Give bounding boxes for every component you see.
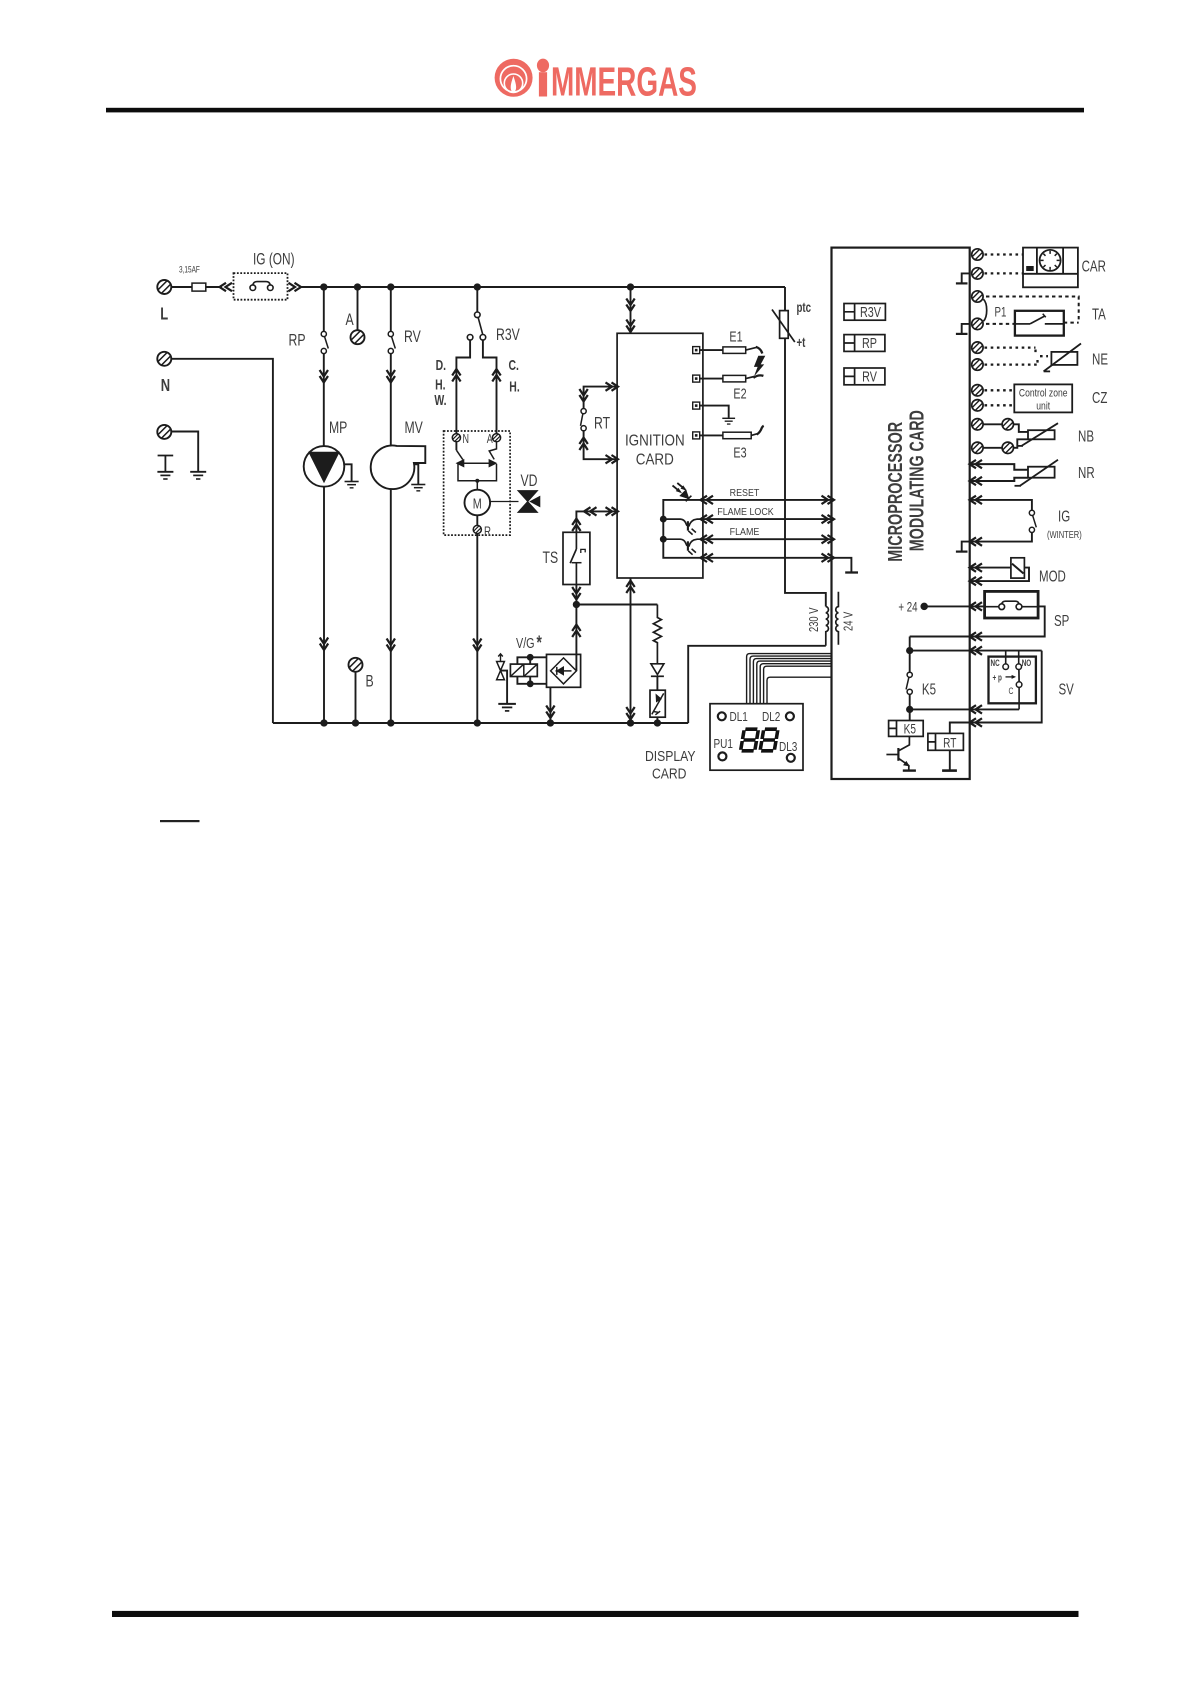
svg-text:CAR: CAR <box>1082 257 1106 275</box>
svg-text:N: N <box>463 433 469 447</box>
resistor R1 <box>653 605 661 664</box>
spark <box>754 356 765 377</box>
led DL1 <box>718 712 726 720</box>
relay R3V <box>844 304 885 321</box>
svg-text:TS: TS <box>543 549 559 567</box>
junction optocoupler/bus <box>655 720 660 725</box>
terminal TA 2 <box>970 317 984 331</box>
svg-text:(WINTER): (WINTER) <box>1047 529 1082 540</box>
svg-text:NB: NB <box>1078 427 1094 445</box>
wire dotted NE <box>985 348 1036 355</box>
control zone unit CZ <box>1014 384 1072 412</box>
wire junction to rectifier <box>575 605 577 671</box>
svg-text:FLAME LOCK: FLAME LOCK <box>717 506 774 518</box>
wire NB bottom <box>983 447 1002 449</box>
svg-text:E3: E3 <box>733 444 746 461</box>
emblem disc <box>495 59 533 97</box>
external probe NE <box>1051 352 1077 365</box>
svg-text:RV: RV <box>404 328 421 346</box>
svg-text:R3V: R3V <box>496 326 520 344</box>
svg-text:E1: E1 <box>729 328 742 345</box>
svg-text:NE: NE <box>1092 350 1108 368</box>
svg-text:RP: RP <box>862 334 877 351</box>
svg-text:MP: MP <box>329 419 347 437</box>
svg-text:P1: P1 <box>995 305 1007 320</box>
wire ptc to transformer <box>785 338 826 606</box>
svg-text:RP: RP <box>289 332 306 350</box>
wire to bus <box>656 717 658 723</box>
wire ribbon bundle <box>747 654 832 704</box>
wire K5 to edge <box>910 708 1019 710</box>
thermostat TA box <box>1015 311 1064 336</box>
solenoid valve SV <box>989 657 1036 704</box>
svg-text:FLAME: FLAME <box>730 527 760 539</box>
wire dotted CAR <box>985 253 1024 255</box>
wire fuse to switch <box>206 286 222 288</box>
wire NB top <box>983 423 1002 425</box>
junction R3V/bus <box>475 720 480 725</box>
signal ground stub <box>832 558 852 572</box>
svg-text:MMERGAS: MMERGAS <box>551 61 697 105</box>
terminal N <box>156 350 176 370</box>
node RV <box>388 284 393 289</box>
wire bus riser to transformer <box>688 646 826 723</box>
svg-text:B: B <box>366 673 374 691</box>
junction ignition card/bus <box>628 720 633 725</box>
svg-text:PU1: PU1 <box>714 738 733 751</box>
wire RP to pump <box>323 354 325 447</box>
svg-text:K5: K5 <box>922 680 936 698</box>
terminal E3 pin <box>693 432 700 439</box>
switch IG (ON) <box>234 273 288 300</box>
wire pump to bus <box>323 487 325 723</box>
svg-text:NR: NR <box>1078 463 1095 481</box>
relay RV <box>844 368 885 385</box>
svg-text:RT: RT <box>594 415 610 433</box>
terminal CAR 2 <box>970 266 984 280</box>
svg-text:N: N <box>161 376 170 396</box>
svg-text:+t: +t <box>797 336 806 351</box>
svg-text:R3V: R3V <box>860 303 881 320</box>
key underline <box>160 820 200 822</box>
svg-text:H.: H. <box>509 379 519 395</box>
svg-text:SP: SP <box>1054 611 1069 629</box>
wire fan to bus <box>390 489 392 723</box>
wire to ground <box>700 406 729 418</box>
phototransistor Q1 <box>663 519 687 526</box>
node K5 top <box>909 637 911 651</box>
svg-text:A: A <box>346 311 354 329</box>
display card U3 <box>710 704 803 771</box>
svg-text:RT: RT <box>943 735 957 751</box>
wire B to bus <box>355 671 357 723</box>
svg-text:TA: TA <box>1092 305 1106 323</box>
wire TS to junction <box>575 585 577 605</box>
transistor Q3 <box>899 736 910 750</box>
terminal CZ 1 <box>970 383 984 397</box>
wire TS line <box>576 511 617 532</box>
relay coil RT <box>950 723 970 734</box>
svg-text:IG: IG <box>1058 507 1070 525</box>
svg-text:DL3: DL3 <box>779 741 797 754</box>
relay contact K5 <box>909 651 911 673</box>
modulating coil MOD <box>970 567 1011 569</box>
node phototransistor 2 <box>661 537 666 542</box>
svg-text:RESET: RESET <box>730 487 760 499</box>
terminal NE 1 <box>970 341 984 355</box>
SV loop <box>950 651 1042 723</box>
terminal E2 pin <box>693 375 700 382</box>
terminal L <box>156 279 176 299</box>
wire dotted CZ <box>985 389 1015 391</box>
svg-text:ptc: ptc <box>797 301 812 316</box>
svg-text:Control zone: Control zone <box>1019 388 1068 400</box>
svg-text:3,15AF: 3,15AF <box>179 264 200 274</box>
wire main bus L <box>300 286 785 288</box>
dhw probe NR <box>1028 467 1055 478</box>
svg-text:IGNITION: IGNITION <box>625 433 685 450</box>
terminal A <box>357 287 359 331</box>
7-segment display <box>741 729 778 751</box>
photo coupler group box <box>663 500 703 558</box>
terminal NE 2 <box>970 358 984 372</box>
wire ignition card to bus <box>630 578 632 723</box>
valve bracket <box>517 657 546 684</box>
svg-text:MV: MV <box>405 419 423 437</box>
wire L to fuse <box>171 286 192 288</box>
wire R to bus <box>476 534 478 723</box>
svg-text:K5: K5 <box>904 721 917 737</box>
pressure switch SP <box>985 591 1039 618</box>
ground <box>498 703 516 705</box>
svg-text:DL1: DL1 <box>730 711 748 724</box>
svg-text:MICROPROCESSOR: MICROPROCESSOR <box>883 421 906 561</box>
boiler probe NB <box>1028 430 1055 439</box>
svg-text:C: C <box>1009 686 1014 696</box>
svg-text:*: * <box>537 632 543 654</box>
svg-text:SV: SV <box>1059 680 1075 698</box>
svg-text:R: R <box>484 524 491 539</box>
motor M <box>465 490 491 516</box>
signal ground stub TA <box>962 324 970 333</box>
svg-text:unit: unit <box>1036 400 1050 412</box>
node RP <box>321 284 326 289</box>
svg-text:CARD: CARD <box>636 452 674 469</box>
ground <box>190 472 206 479</box>
relay RP <box>844 335 885 352</box>
svg-text:24 V: 24 V <box>842 611 856 631</box>
junction MV/bus <box>388 720 393 725</box>
svg-text:CZ: CZ <box>1092 388 1108 406</box>
svg-text:D.: D. <box>436 357 446 373</box>
junction rectifier/bus <box>548 720 553 725</box>
i stem <box>539 72 547 96</box>
i dot <box>537 59 549 73</box>
room thermostat TA dashed outline <box>986 297 1079 324</box>
junction B/bus <box>353 720 358 725</box>
switch IG (WINTER) <box>970 500 1032 510</box>
wire junction to resistor chain <box>576 604 657 606</box>
terminal E1 pin <box>693 347 700 354</box>
fuse 3,15AF <box>192 283 206 291</box>
svg-text:L: L <box>160 304 168 324</box>
wire link P1 <box>983 299 986 321</box>
terminal gnd pin <box>693 402 700 409</box>
svg-text:CARD: CARD <box>652 766 687 782</box>
wire NR bottom <box>970 478 1028 481</box>
svg-text:+ p: + p <box>993 672 1003 682</box>
optocoupler diode box <box>650 690 665 717</box>
chevrons out of switch <box>289 283 302 291</box>
ground <box>157 472 173 479</box>
wire DHW branch <box>456 340 470 434</box>
top rule <box>106 108 1084 113</box>
wire CH branch <box>483 340 497 434</box>
safety valve symbol <box>497 662 505 680</box>
node phototransistor 1 <box>661 517 666 522</box>
LED DL <box>680 490 691 501</box>
node TS junction <box>574 602 579 607</box>
terminal CAR 1 <box>970 248 984 262</box>
terminal NB 1 <box>970 417 984 431</box>
wire valve to ground <box>501 671 508 704</box>
svg-text:DL2: DL2 <box>762 711 780 724</box>
svg-text:E2: E2 <box>733 385 746 402</box>
diode D1 <box>651 664 664 675</box>
wire bottom neutral bus <box>273 722 688 724</box>
svg-text:IG (ON): IG (ON) <box>253 251 295 269</box>
node R3V <box>475 284 480 289</box>
rectifier bridge <box>547 654 581 687</box>
signal ground stub IG <box>962 542 970 551</box>
wire N <box>171 359 273 723</box>
wire rectifier to bus <box>549 687 551 723</box>
svg-text:H.: H. <box>435 377 445 393</box>
wire common <box>703 557 832 559</box>
svg-text:MOD: MOD <box>1039 567 1066 585</box>
signal ground stub CAR <box>962 273 970 282</box>
svg-text:M: M <box>473 495 482 512</box>
wire K5/SV <box>910 650 1042 652</box>
svg-text:NO: NO <box>1022 658 1032 668</box>
bottom rule <box>112 1611 1079 1617</box>
svg-text:V/G: V/G <box>516 634 535 651</box>
svg-text:VD: VD <box>521 472 538 490</box>
svg-text:230 V: 230 V <box>808 607 822 632</box>
ignition card U2 <box>617 333 703 578</box>
node ignition feed <box>628 284 633 289</box>
phototransistor Q2 <box>663 539 687 546</box>
wire earth <box>171 432 198 472</box>
terminal CZ 2 <box>970 398 984 412</box>
terminal earth <box>156 423 176 443</box>
terminal B <box>347 656 367 676</box>
valve actuator box R3V <box>444 431 511 535</box>
chevrons into switch <box>220 283 233 291</box>
terminal NB 2 <box>970 441 984 455</box>
svg-text:+ 24: + 24 <box>898 600 918 615</box>
protective earth symbol <box>158 456 174 472</box>
svg-text:DISPLAY: DISPLAY <box>645 748 696 764</box>
remote control CAR <box>1023 248 1078 288</box>
svg-text:NC: NC <box>991 658 1001 668</box>
microprocessor modulating card U1 <box>832 248 970 779</box>
svg-text:W.: W. <box>434 392 446 408</box>
wire NR top <box>970 464 1028 470</box>
wire bus to ignition card <box>630 287 632 333</box>
svg-text:MODULATING CARD: MODULATING CARD <box>905 410 928 551</box>
node A <box>355 284 360 289</box>
svg-text:RV: RV <box>862 368 877 385</box>
terminal TA 1 <box>970 290 984 304</box>
svg-text:C.: C. <box>509 357 519 373</box>
relay coil K5 <box>909 709 911 720</box>
actuator contacts <box>455 442 457 450</box>
svg-text:A: A <box>487 433 494 447</box>
valve coils rect <box>510 664 537 676</box>
wire RV to fan <box>390 354 392 446</box>
junction MP/bus <box>321 720 326 725</box>
